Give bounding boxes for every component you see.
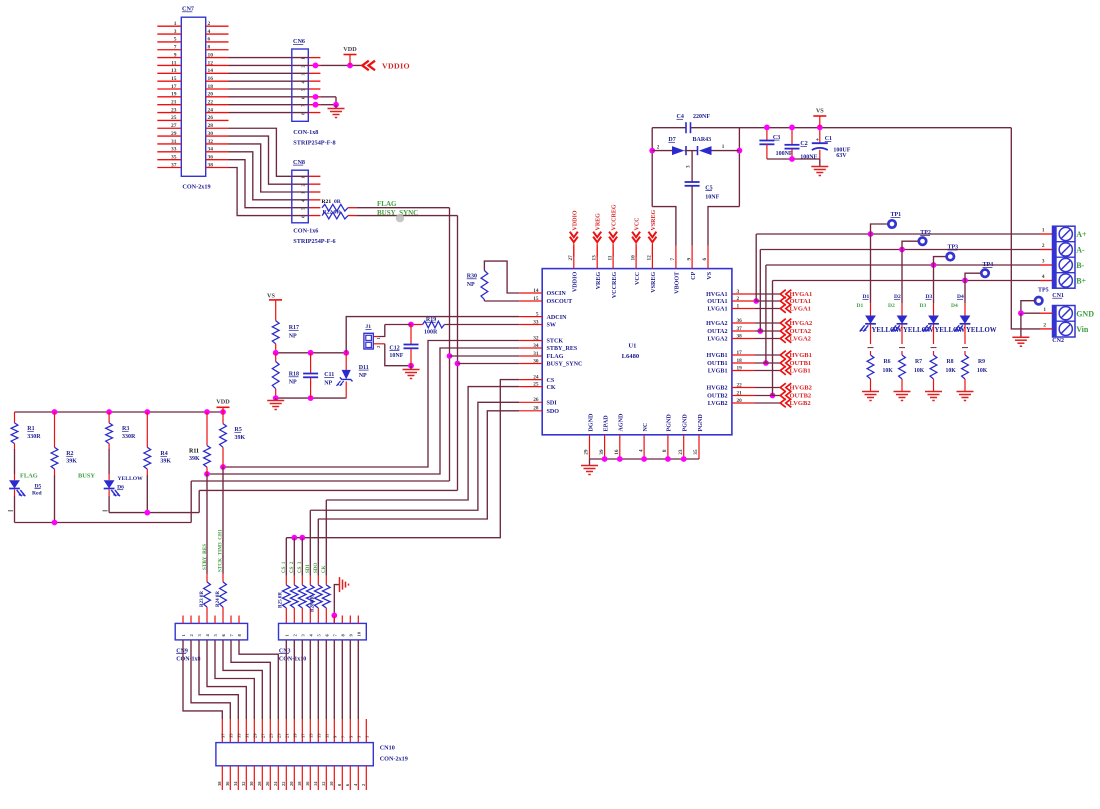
svg-text:OUTA1: OUTA1	[707, 299, 727, 305]
svg-text:CON-1x8: CON-1x8	[293, 129, 318, 136]
svg-text:100NF: 100NF	[800, 155, 817, 161]
svg-text:19: 19	[737, 365, 743, 371]
svg-text:6: 6	[702, 258, 708, 261]
svg-text:CN10: CN10	[380, 745, 395, 752]
svg-text:9: 9	[686, 258, 692, 261]
svg-text:16: 16	[614, 449, 620, 455]
svg-text:22: 22	[281, 781, 286, 786]
svg-text:CON-2x19: CON-2x19	[182, 184, 210, 191]
svg-text:39K: 39K	[189, 456, 200, 462]
svg-text:LVGA2: LVGA2	[707, 337, 727, 343]
svg-text:30: 30	[249, 781, 254, 786]
svg-text:7: 7	[670, 258, 676, 261]
svg-text:32: 32	[241, 781, 246, 786]
svg-text:1: 1	[1042, 228, 1045, 234]
svg-text:OUTA1: OUTA1	[790, 298, 812, 305]
svg-text:VS: VS	[707, 271, 713, 279]
svg-text:100NF: 100NF	[776, 151, 793, 157]
svg-text:36: 36	[737, 318, 743, 324]
svg-text:VCC: VCC	[635, 272, 641, 285]
svg-text:VREG: VREG	[596, 272, 602, 290]
svg-text:SDI: SDI	[547, 401, 558, 407]
svg-text:NP: NP	[324, 381, 332, 387]
svg-text:25: 25	[269, 733, 274, 738]
svg-text:STCK_TIM3_CH1: STCK_TIM3_CH1	[218, 529, 224, 572]
svg-text:28: 28	[533, 406, 539, 412]
svg-text:18: 18	[737, 358, 743, 364]
svg-text:VCCREG: VCCREG	[612, 272, 618, 299]
svg-text:10K: 10K	[946, 368, 957, 374]
svg-text:35: 35	[171, 154, 177, 160]
svg-text:25: 25	[171, 115, 177, 121]
svg-text:OUTA2: OUTA2	[790, 328, 812, 335]
svg-text:1: 1	[722, 144, 725, 150]
svg-text:330R: 330R	[27, 434, 41, 440]
svg-text:28: 28	[257, 781, 262, 786]
svg-text:NP: NP	[467, 282, 475, 288]
svg-text:CK: CK	[322, 565, 327, 573]
svg-text:OSCOUT: OSCOUT	[547, 299, 573, 305]
svg-text:OUTA2: OUTA2	[707, 329, 727, 335]
svg-text:SDO: SDO	[314, 563, 319, 573]
svg-text:100R: 100R	[424, 329, 438, 335]
svg-text:35: 35	[229, 733, 234, 738]
svg-text:GND: GND	[1076, 309, 1094, 318]
svg-text:DGND: DGND	[588, 413, 594, 432]
svg-text:U1: U1	[628, 343, 636, 350]
svg-text:LVGA1: LVGA1	[707, 307, 727, 313]
svg-text:EPAD: EPAD	[603, 415, 609, 432]
svg-text:29: 29	[171, 131, 177, 137]
svg-text:L6480: L6480	[622, 353, 640, 360]
svg-text:14: 14	[533, 288, 539, 294]
svg-text:VREG: VREG	[596, 213, 602, 231]
svg-text:33: 33	[171, 147, 177, 153]
svg-text:39: 39	[599, 449, 605, 455]
svg-text:R23 0R: R23 0R	[200, 591, 205, 607]
svg-text:VS: VS	[267, 293, 275, 300]
svg-text:22: 22	[737, 382, 743, 388]
svg-text:VSREG: VSREG	[651, 272, 657, 293]
svg-text:3: 3	[737, 289, 740, 295]
svg-text:11: 11	[325, 733, 330, 738]
svg-text:HVGA2: HVGA2	[790, 320, 813, 327]
svg-text:CS_3: CS_3	[298, 561, 303, 573]
svg-text:37: 37	[221, 733, 226, 738]
svg-text:HVGA2: HVGA2	[706, 321, 727, 327]
svg-text:10: 10	[630, 255, 636, 261]
svg-text:37: 37	[737, 326, 743, 332]
svg-text:OUTB2: OUTB2	[790, 393, 812, 400]
svg-text:R21: R21	[322, 199, 332, 205]
svg-text:LVGB1: LVGB1	[708, 369, 728, 375]
svg-text:LVGA1: LVGA1	[790, 306, 811, 313]
svg-text:24: 24	[273, 781, 278, 786]
svg-text:32: 32	[533, 335, 539, 341]
svg-text:D1: D1	[857, 303, 864, 309]
svg-text:19: 19	[171, 92, 177, 98]
svg-text:VSREG: VSREG	[651, 209, 657, 230]
svg-text:YELLOW: YELLOW	[966, 327, 997, 334]
svg-text:NP: NP	[359, 373, 367, 379]
svg-text:20: 20	[737, 398, 743, 404]
svg-text:39K: 39K	[235, 435, 246, 441]
svg-text:25: 25	[533, 381, 539, 387]
svg-text:27: 27	[171, 123, 177, 129]
svg-text:5: 5	[536, 311, 539, 317]
svg-text:34: 34	[533, 343, 539, 349]
svg-text:10K: 10K	[883, 368, 894, 374]
svg-text:16: 16	[305, 781, 310, 786]
svg-text:D4: D4	[951, 303, 958, 309]
svg-text:33: 33	[237, 733, 242, 738]
svg-text:CS_1: CS_1	[282, 561, 287, 573]
svg-text:D3: D3	[920, 303, 927, 309]
svg-text:15: 15	[171, 76, 177, 82]
svg-text:R7: R7	[915, 359, 922, 365]
svg-text:34: 34	[233, 781, 238, 786]
svg-text:38: 38	[737, 333, 743, 339]
svg-text:LVGA2: LVGA2	[790, 336, 811, 343]
svg-text:24: 24	[533, 374, 539, 380]
svg-text:3: 3	[174, 29, 177, 35]
svg-text:AGND: AGND	[619, 413, 625, 432]
svg-text:PGND: PGND	[667, 414, 673, 432]
svg-text:11: 11	[171, 60, 176, 66]
svg-text:R11: R11	[189, 449, 199, 455]
svg-text:3: 3	[1042, 259, 1045, 265]
svg-text:10NF: 10NF	[389, 353, 403, 359]
svg-text:38: 38	[217, 781, 222, 786]
svg-text:2: 2	[1043, 323, 1046, 329]
svg-text:D2: D2	[888, 303, 895, 309]
svg-text:15: 15	[533, 296, 539, 302]
svg-text:12: 12	[321, 781, 326, 786]
svg-text:9: 9	[174, 52, 177, 58]
svg-text:13: 13	[317, 733, 322, 738]
svg-text:B-: B-	[1076, 261, 1084, 270]
svg-text:10K: 10K	[914, 368, 925, 374]
svg-text:14: 14	[313, 781, 318, 786]
svg-text:10: 10	[329, 781, 334, 786]
svg-text:STBY_RES: STBY_RES	[547, 346, 578, 352]
svg-text:SW: SW	[547, 323, 556, 329]
svg-text:12: 12	[647, 255, 653, 261]
svg-text:STBY_RES: STBY_RES	[202, 544, 208, 570]
svg-text:A+: A+	[1076, 230, 1087, 239]
svg-text:CON-1x8: CON-1x8	[176, 657, 200, 663]
svg-text:TP5: TP5	[1038, 288, 1049, 294]
svg-text:YELLOW: YELLOW	[118, 476, 144, 482]
svg-text:BUSY: BUSY	[78, 473, 95, 480]
svg-text:HVGA1: HVGA1	[706, 292, 727, 298]
svg-text:VDD: VDD	[216, 399, 230, 406]
svg-text:R24 0R: R24 0R	[216, 591, 221, 607]
svg-text:R28 0R: R28 0R	[311, 596, 316, 612]
svg-text:STRIP254P-F-6: STRIP254P-F-6	[293, 238, 335, 245]
svg-text:PGND: PGND	[683, 414, 689, 432]
svg-text:HVGA1: HVGA1	[790, 291, 813, 298]
svg-text:OUTB2: OUTB2	[707, 394, 727, 400]
svg-text:11: 11	[607, 255, 613, 260]
svg-text:VS: VS	[816, 107, 824, 114]
svg-text:CS_2: CS_2	[290, 561, 295, 573]
svg-text:LVGB2: LVGB2	[790, 400, 811, 407]
svg-text:VDDIO: VDDIO	[572, 210, 578, 230]
svg-text:LVGB1: LVGB1	[790, 368, 811, 375]
svg-text:39K: 39K	[160, 459, 171, 465]
svg-text:35: 35	[693, 449, 699, 455]
svg-text:HVGB2: HVGB2	[790, 385, 812, 392]
svg-text:18: 18	[297, 781, 302, 786]
svg-text:VDDIO: VDDIO	[573, 272, 579, 293]
svg-text:27: 27	[261, 733, 266, 738]
svg-text:FLAG: FLAG	[377, 200, 397, 208]
svg-text:36: 36	[225, 781, 230, 786]
svg-text:FLAG: FLAG	[547, 354, 564, 360]
svg-text:R25 0R: R25 0R	[279, 592, 284, 608]
svg-text:2: 2	[737, 296, 740, 302]
svg-text:31: 31	[533, 351, 539, 357]
svg-text:R8: R8	[947, 359, 954, 365]
svg-text:CON-1x6: CON-1x6	[293, 227, 318, 234]
svg-text:CS: CS	[547, 378, 555, 384]
svg-text:10: 10	[357, 631, 362, 636]
svg-text:NC: NC	[643, 423, 649, 432]
svg-text:29: 29	[584, 449, 590, 455]
svg-text:B+: B+	[1076, 277, 1086, 286]
svg-text:29: 29	[253, 733, 258, 738]
svg-text:FLAG: FLAG	[20, 473, 38, 480]
svg-text:30: 30	[533, 358, 539, 364]
svg-text:BUSY_SYNC: BUSY_SYNC	[547, 362, 583, 368]
svg-text:ADCIN: ADCIN	[547, 315, 568, 321]
svg-text:15: 15	[309, 733, 314, 738]
svg-text:STRIP254P-F-8: STRIP254P-F-8	[293, 139, 335, 146]
svg-text:VDDIO: VDDIO	[382, 61, 410, 70]
svg-text:HVGB1: HVGB1	[707, 353, 728, 359]
svg-text:VCC: VCC	[635, 218, 641, 231]
svg-text:220NF: 220NF	[693, 114, 710, 120]
svg-text:1: 1	[174, 21, 177, 27]
svg-text:OUTB1: OUTB1	[707, 361, 727, 367]
svg-text:26: 26	[533, 397, 539, 403]
svg-text:4: 4	[638, 449, 644, 452]
svg-text:10K: 10K	[977, 368, 988, 374]
svg-text:1: 1	[1043, 307, 1046, 313]
svg-text:+: +	[816, 138, 820, 144]
svg-text:Red: Red	[32, 491, 43, 497]
svg-text:4: 4	[1042, 274, 1045, 280]
svg-text:21: 21	[737, 390, 743, 396]
svg-text:HVGB2: HVGB2	[707, 386, 728, 392]
svg-text:NP: NP	[289, 380, 297, 386]
svg-text:3: 3	[686, 165, 692, 168]
svg-text:330R: 330R	[122, 434, 136, 440]
svg-text:13: 13	[591, 255, 597, 261]
svg-text:VDD: VDD	[343, 46, 357, 53]
svg-text:13: 13	[171, 68, 177, 74]
svg-text:2: 2	[657, 145, 660, 151]
svg-text:7: 7	[174, 45, 177, 51]
svg-text:CON-2x19: CON-2x19	[380, 755, 408, 762]
svg-text:VCCREG: VCCREG	[612, 204, 618, 230]
svg-text:1: 1	[737, 303, 740, 309]
svg-text:LVGB2: LVGB2	[708, 401, 728, 407]
svg-text:17: 17	[737, 350, 743, 356]
svg-text:5: 5	[174, 37, 177, 43]
svg-text:21: 21	[171, 100, 177, 106]
svg-text:OSCIN: OSCIN	[547, 291, 567, 297]
svg-text:37: 37	[171, 162, 177, 168]
svg-text:63V: 63V	[836, 153, 847, 159]
svg-text:20: 20	[289, 781, 294, 786]
svg-text:10NF: 10NF	[705, 194, 719, 200]
svg-text:CP: CP	[691, 272, 697, 280]
svg-text:23: 23	[277, 733, 282, 738]
svg-text:HVGB1: HVGB1	[790, 352, 812, 359]
svg-text:BAR43: BAR43	[693, 137, 712, 143]
svg-text:26: 26	[265, 781, 270, 786]
svg-text:21: 21	[285, 733, 290, 738]
svg-text:SDO: SDO	[547, 409, 560, 415]
svg-text:SDI: SDI	[306, 565, 311, 573]
svg-text:Vin: Vin	[1076, 325, 1089, 334]
svg-text:8: 8	[662, 449, 668, 452]
svg-text:31: 31	[245, 733, 250, 738]
svg-text:NP: NP	[289, 334, 297, 340]
svg-text:31: 31	[171, 139, 177, 145]
svg-text:A-: A-	[1076, 246, 1085, 255]
svg-text:23: 23	[678, 449, 684, 455]
svg-text:19: 19	[293, 733, 298, 738]
svg-text:2: 2	[1042, 243, 1045, 249]
svg-text:R9: R9	[978, 359, 985, 365]
svg-text:33: 33	[533, 319, 539, 325]
svg-text:27: 27	[568, 255, 574, 261]
svg-text:23: 23	[171, 107, 177, 113]
svg-text:CN2: CN2	[1052, 338, 1064, 344]
svg-text:CK: CK	[547, 385, 556, 391]
svg-text:39K: 39K	[66, 459, 77, 465]
svg-text:17: 17	[301, 733, 306, 738]
svg-text:VBOOT: VBOOT	[675, 272, 681, 294]
svg-text:OUTB1: OUTB1	[790, 360, 812, 367]
svg-text:R6: R6	[884, 359, 891, 365]
svg-text:STCK: STCK	[547, 339, 564, 345]
svg-text:PGND: PGND	[698, 414, 704, 432]
svg-text:17: 17	[171, 84, 177, 90]
